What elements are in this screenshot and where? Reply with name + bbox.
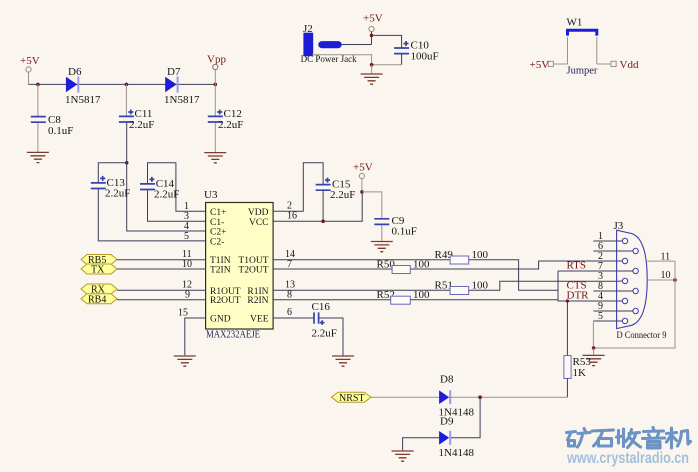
svg-text:7: 7 [287, 259, 292, 270]
U3 right pin names [238, 208, 268, 325]
svg-text:R2IN: R2IN [247, 296, 268, 306]
resistor R53 1K [564, 356, 591, 398]
svg-text:10: 10 [182, 259, 192, 270]
junction at C8 tap [36, 83, 40, 87]
svg-text:VCC: VCC [249, 218, 269, 228]
svg-text:100uF: 100uF [411, 51, 439, 63]
wire C16 right to ground [319, 318, 343, 355]
svg-text:D7: D7 [167, 66, 181, 78]
svg-text:15: 15 [178, 308, 188, 319]
op-amp U3 MAX232AEJE body [204, 189, 273, 341]
svg-text:6: 6 [287, 307, 292, 318]
junction +5V to C9 branch [360, 190, 364, 194]
svg-text:NRST: NRST [339, 393, 365, 404]
node Vpp (terminal) [207, 54, 226, 85]
wire U3 pin6 VEE to C16 [273, 317, 313, 319]
ground below jack [361, 65, 383, 84]
wire +5V rail to Vpp [29, 83, 216, 85]
svg-text:GND: GND [210, 315, 231, 325]
capacitor C9 0.1uF [374, 215, 417, 241]
svg-text:Vpp: Vpp [207, 54, 226, 66]
svg-text:2.2uF: 2.2uF [330, 189, 355, 201]
svg-text:Vdd: Vdd [620, 59, 639, 71]
svg-text:D6: D6 [68, 66, 82, 78]
capacitor C13 2.2uF (polarized) [91, 176, 131, 200]
wire DTR to R53 [566, 301, 568, 355]
node +5V (above VCC) [353, 162, 373, 222]
wire NRST to D8 anode [371, 396, 439, 398]
connector J2 DC Power Jack [301, 23, 357, 64]
svg-text:100: 100 [472, 249, 489, 261]
svg-text:+5V: +5V [20, 55, 40, 67]
svg-text:0.1uF: 0.1uF [392, 226, 417, 238]
svg-text:U3: U3 [204, 189, 218, 201]
ground below C9 [371, 242, 393, 252]
wire jack sleeve to ground / C10 bottom [312, 55, 402, 65]
svg-text:D9: D9 [440, 416, 454, 428]
node +5V (above jack) [363, 13, 383, 45]
port RX [81, 284, 117, 296]
junction C11-/C13+/C2+ node [125, 161, 129, 165]
svg-text:TX: TX [91, 265, 105, 276]
wire C13 bottom to U3 pin5 (C2-) [98, 189, 205, 241]
capacitor C16 2.2uF (polarized, horizontal) [312, 301, 337, 340]
svg-text:DC Power Jack: DC Power Jack [301, 54, 357, 64]
svg-text:VDD: VDD [248, 208, 269, 218]
svg-text:5: 5 [184, 231, 189, 242]
wire C14 bottom to U3 pin3 (C1-) [148, 190, 206, 221]
U3 left pin names [210, 208, 241, 325]
svg-text:2.2uF: 2.2uF [154, 189, 179, 201]
capacitor C8 0.1uF [31, 84, 74, 151]
svg-text:C2+: C2+ [210, 228, 226, 238]
wire U3 pin14 T1OUT through R49 to DB9 pin7 [273, 260, 620, 291]
capacitor C14 2.2uF (polarized) [140, 177, 179, 201]
wire D8 cathode to R53 bottom [449, 396, 567, 398]
svg-text:9: 9 [185, 290, 190, 301]
J3 pin circles [622, 238, 638, 323]
port TX [81, 264, 117, 276]
capacitor C10 100uF (polarized) [394, 40, 439, 65]
wire J3 pin11 [647, 260, 675, 262]
diode D8 1N4148 [439, 374, 475, 419]
capacitor C12 2.2uF (polarized) [208, 84, 244, 152]
svg-text:1N5817: 1N5817 [164, 94, 200, 106]
svg-text:+5V: +5V [353, 162, 373, 174]
svg-text:RTS: RTS [567, 259, 587, 271]
resistor R52 100 (on R2IN wire) [377, 289, 431, 304]
svg-text:2.2uF: 2.2uF [218, 119, 243, 131]
capacitor C11 2.2uF (polarized) [119, 84, 154, 162]
svg-text:0.1uF: 0.1uF [48, 125, 73, 137]
jumper W1 [530, 17, 639, 77]
svg-text:+5V: +5V [530, 59, 550, 71]
wire jack center pin to +5V column [342, 44, 372, 46]
junction ground run [592, 346, 596, 350]
svg-text:1N5817: 1N5817 [65, 94, 101, 106]
svg-text:1N4148: 1N4148 [439, 447, 475, 459]
junction at Vpp / C12 tap [214, 83, 218, 87]
watermark 矿石收音机 (drawn strokes) [567, 428, 691, 449]
svg-text:T2OUT: T2OUT [238, 266, 268, 276]
wire U3 pin7 T2OUT through R50 to DB9 pin2 [273, 261, 620, 269]
svg-text:DTR: DTR [567, 289, 590, 301]
svg-text:1K: 1K [573, 367, 587, 379]
wire U3 pin13 R1IN through R51 to DB9 pin3 [273, 281, 620, 290]
resistor R50 100 (on T2OUT wire) [377, 259, 431, 274]
port RB5 [81, 255, 117, 267]
wire J3 pin5 down to ground run [592, 321, 594, 348]
junction pin10/11 column [673, 278, 677, 282]
resistor R51 100 (on R1IN wire) [435, 280, 489, 295]
svg-text:C1-: C1- [210, 218, 224, 228]
svg-text:100: 100 [472, 280, 489, 292]
wire U3 pin8 R2IN to DB9 pin4 [273, 271, 620, 301]
svg-text:2.2uF: 2.2uF [129, 119, 154, 131]
ground below C8 [27, 152, 49, 162]
J3 pin numbers 1,6,2,7,3,8,4,9,5 [598, 231, 603, 322]
port NRST [331, 392, 371, 404]
svg-text:T2IN: T2IN [210, 266, 231, 276]
svg-text:C2-: C2- [210, 238, 224, 248]
wire U3 pin2 VDD up-over to C15 top [273, 163, 323, 212]
wire U3 pin15 GND down [185, 318, 206, 355]
svg-text:C1+: C1+ [210, 208, 226, 218]
svg-text:www.crystalradio.cn: www.crystalradio.cn [566, 450, 689, 467]
svg-text:5: 5 [598, 311, 603, 322]
svg-text:MAX232AEJE: MAX232AEJE [206, 330, 260, 341]
wire U3 pin16 VCC to +5V column [273, 220, 363, 222]
wire node to C13 top [98, 163, 126, 183]
svg-text:16: 16 [287, 211, 297, 222]
svg-text:D8: D8 [440, 374, 454, 386]
ground below J3 [583, 348, 605, 366]
wire node down to U3 pin4 (C2+) [127, 163, 206, 231]
wire J3 pin10 [647, 279, 675, 281]
svg-text:100: 100 [413, 289, 430, 301]
diode D7 1N5817 [164, 66, 200, 106]
junction jack +5V node [370, 34, 374, 38]
ground below C16 [332, 356, 354, 366]
svg-text:W1: W1 [567, 17, 583, 29]
node +5V (top-left terminal) [20, 55, 40, 84]
wire branch down to D9 cathode [450, 397, 480, 438]
svg-text:C16: C16 [312, 301, 331, 313]
wire RX to U3 pin12 R1OUT [117, 289, 206, 291]
wire TX to U3 pin10 T2IN [117, 268, 206, 270]
junction between D6 and D7 [125, 83, 129, 87]
svg-text:2.2uF: 2.2uF [312, 328, 337, 340]
junction D9 branch [478, 395, 482, 399]
svg-text:Jumper: Jumper [567, 66, 598, 77]
svg-text:+5V: +5V [363, 13, 383, 25]
svg-text:R2OUT: R2OUT [210, 296, 241, 306]
diode D6 1N5817 [65, 66, 101, 106]
connector J3 D Connector 9 [614, 220, 667, 341]
ground below U3 GND [174, 356, 196, 366]
svg-text:D Connector 9: D Connector 9 [617, 331, 667, 341]
wire RB5 to U3 pin11 T1IN [117, 259, 206, 261]
resistor R49 100 (on T1OUT wire) [435, 249, 489, 264]
ground below C12 [204, 153, 226, 163]
wire RB4 to U3 pin9 R2OUT [117, 299, 206, 301]
port RB4 [81, 294, 117, 306]
wire C14 top loop to U3 pin1 (C1+) [148, 163, 206, 212]
junction C15 bottom on VCC wire [321, 220, 325, 224]
junction R53 tap [566, 299, 569, 302]
diode D9 1N4148 [439, 416, 475, 460]
svg-text:RB4: RB4 [88, 294, 106, 305]
J3 pin stubs [593, 241, 633, 321]
ground below D9 [392, 451, 414, 461]
capacitor C15 2.2uF (polarized) [316, 178, 356, 222]
wire +5V node over to C10 top [372, 35, 402, 47]
wire branch to C9 [362, 192, 382, 218]
junction jack ground node [370, 63, 374, 67]
svg-text:2.2uF: 2.2uF [105, 188, 130, 200]
svg-text:8: 8 [287, 290, 292, 301]
wire shield column down to ground run [594, 261, 675, 348]
svg-text:VEE: VEE [250, 315, 269, 325]
svg-text:100: 100 [413, 259, 430, 271]
wire D9 anode to ground [403, 438, 440, 451]
